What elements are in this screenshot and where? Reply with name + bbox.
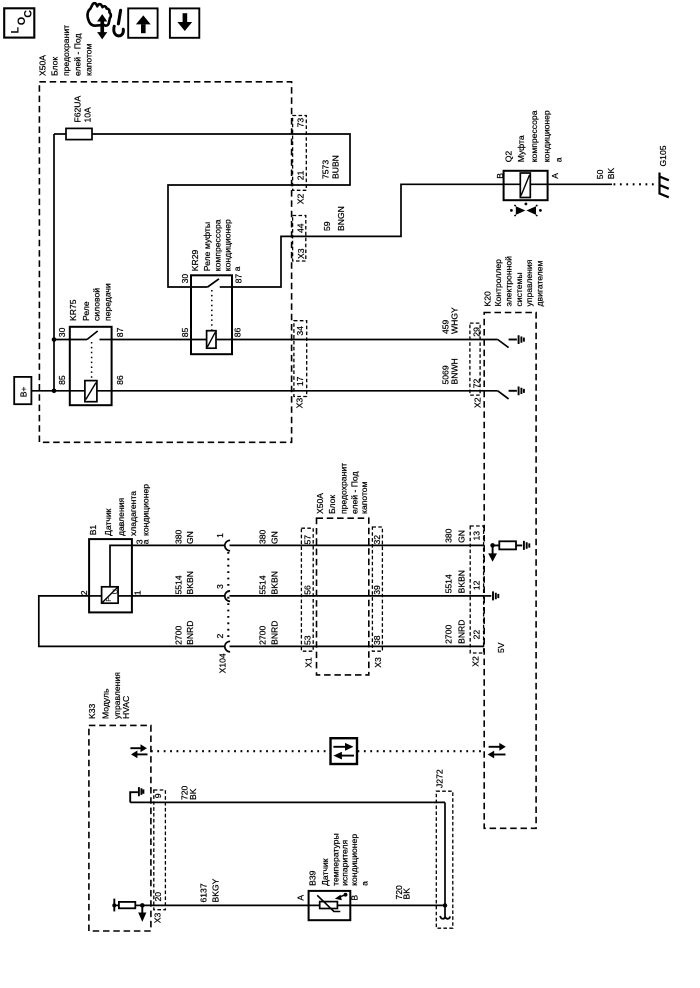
svg-text:BK: BK [606, 167, 616, 179]
svg-text:X2: X2 [295, 193, 305, 204]
svg-text:капотом: капотом [84, 43, 94, 76]
serial data arrows in K20 [488, 743, 506, 759]
svg-text:системы: системы [514, 272, 524, 306]
svg-text:5514: 5514 [258, 575, 268, 594]
svg-text:59: 59 [322, 221, 332, 231]
svg-text:12: 12 [472, 580, 482, 590]
LOC hint box [4, 8, 34, 37]
wire 459 WHGY: KR75:87 to KR29 coil to K20 [112, 339, 498, 341]
svg-text:G105: G105 [658, 145, 668, 166]
suppression diode under Q2 [510, 203, 542, 217]
svg-text:87: 87 [115, 327, 125, 337]
svg-text:Датчик: Датчик [103, 508, 113, 536]
svg-text:а: а [232, 266, 242, 271]
svg-text:кондиционер: кондиционер [541, 110, 551, 162]
svg-text:2700: 2700 [444, 625, 454, 644]
fuse block X50A (underhood) dashed outline [39, 82, 291, 443]
fuse F62UA 10A [66, 95, 92, 139]
svg-text:предохранит: предохранит [339, 463, 349, 514]
svg-text:GN: GN [270, 531, 280, 544]
A/C compressor clutch Q2 [495, 110, 564, 200]
svg-text:GN: GN [457, 530, 467, 543]
svg-text:85: 85 [180, 328, 190, 338]
svg-text:50: 50 [595, 169, 605, 179]
svg-text:K33: K33 [87, 703, 97, 719]
wire 5069 BNWH: KR75 coil to K20 [112, 390, 498, 392]
svg-text:L: L [10, 27, 22, 34]
wire 720 BK K33 pin 9 to J272 [130, 801, 445, 803]
wire 720 BK B39 to J272 [350, 904, 445, 906]
label X50A pass-through [315, 463, 369, 514]
wire 5514 BKBN B1 to X104 [132, 595, 225, 597]
junction at relay KR75 pin 85 feed [52, 389, 57, 394]
ECM K20 dashed outline [484, 313, 536, 829]
A/C refrigerant pressure sensor B1 [79, 484, 151, 613]
svg-text:давления: давления [116, 497, 126, 536]
svg-text:57: 57 [303, 535, 313, 545]
svg-text:1: 1 [215, 533, 225, 538]
svg-text:испарителя: испарителя [340, 839, 350, 885]
wire B+ to junction [31, 390, 54, 392]
wire labels (segment 3) [444, 528, 467, 644]
wire 720 BK label (B39 side) [394, 885, 412, 900]
svg-text:87: 87 [234, 274, 244, 284]
svg-text:силовой: силовой [92, 288, 102, 321]
svg-text:передачи: передачи [102, 283, 112, 321]
svg-text:управления: управления [524, 259, 534, 306]
svg-text:A: A [295, 895, 305, 901]
wires through X50A [301, 545, 484, 646]
svg-text:хладагента: хладагента [128, 491, 138, 536]
svg-text:WHGY: WHGY [450, 307, 460, 334]
relay KR29 A/C compressor clutch relay [180, 219, 244, 354]
wire labels (segment 2) [258, 529, 280, 644]
svg-text:Реле: Реле [81, 301, 91, 321]
K20 internal ground pin 12 [484, 591, 498, 600]
K20 low-side driver pin 29 [498, 335, 524, 347]
svg-text:X2: X2 [471, 656, 481, 667]
svg-text:86: 86 [115, 375, 125, 385]
svg-text:BNRD: BNRD [270, 621, 280, 645]
HVAC control module K33 dashed outline [89, 725, 151, 931]
svg-text:BNRD: BNRD [185, 621, 195, 645]
svg-text:2: 2 [79, 590, 89, 595]
svg-text:B+: B+ [19, 387, 29, 398]
svg-text:X3: X3 [296, 248, 306, 259]
svg-text:B1: B1 [88, 525, 98, 536]
svg-text:X2: X2 [472, 397, 482, 408]
svg-text:кондиционер: кондиционер [349, 834, 359, 886]
svg-text:Блок: Блок [327, 495, 337, 514]
wires X104 to X1 strip [230, 545, 302, 646]
svg-text:5514: 5514 [174, 575, 184, 594]
svg-text:X3: X3 [373, 657, 383, 668]
svg-text:GN: GN [185, 531, 195, 544]
wire 59 BNGN label [322, 206, 346, 231]
svg-text:BK: BK [401, 888, 411, 900]
up-arrow nav box [128, 8, 157, 37]
svg-text:U: U [110, 589, 119, 594]
svg-text:X50A: X50A [38, 55, 48, 76]
svg-text:кондиционер: кондиционер [223, 219, 233, 271]
svg-text:Q2: Q2 [504, 151, 514, 163]
svg-text:380: 380 [258, 529, 268, 544]
serial data arrows in K33 [130, 744, 147, 758]
svg-text:13: 13 [472, 531, 482, 541]
svg-text:6137: 6137 [199, 883, 209, 902]
svg-text:30: 30 [57, 327, 67, 337]
svg-text:72: 72 [472, 379, 482, 389]
svg-text:X1: X1 [304, 657, 314, 668]
wire to fuse [54, 133, 66, 135]
K33 internal pull-up with signal arrow pin 20 [112, 899, 146, 922]
label K33 HVAC module [87, 672, 131, 719]
svg-text:BKBN: BKBN [185, 571, 195, 594]
svg-text:380: 380 [174, 529, 184, 544]
A/C evaporator temperature sensor B39 [295, 833, 369, 920]
svg-text:а: а [141, 539, 151, 544]
wire 5069 BNWH label [440, 358, 459, 384]
connector X3 strip pins 34/17 [294, 321, 307, 409]
svg-text:Реле муфты: Реле муфты [202, 222, 212, 271]
svg-text:2700: 2700 [174, 626, 184, 645]
down-arrow nav box [170, 8, 199, 37]
K33 internal ground pin 9 [130, 787, 143, 802]
svg-text:BKBN: BKBN [270, 571, 280, 594]
wire fuse output through X2:73 loop [92, 134, 350, 287]
svg-text:X3: X3 [295, 398, 305, 409]
svg-text:BNGN: BNGN [336, 206, 346, 231]
svg-text:J272: J272 [435, 769, 445, 788]
wire 50 BK to ground [548, 183, 612, 185]
svg-text:Датчик: Датчик [320, 858, 330, 886]
svg-text:X3: X3 [152, 912, 162, 923]
svg-text:21: 21 [296, 170, 306, 180]
svg-text:7573: 7573 [320, 160, 330, 179]
K20 internal pull-up on pin 13 [488, 541, 529, 562]
fuse block X50A pass-through dashed outline [317, 518, 369, 675]
wire 380 GN B1 to X104 [132, 544, 225, 546]
svg-text:86: 86 [233, 328, 243, 338]
svg-text:BKBN: BKBN [457, 570, 467, 593]
svg-text:56: 56 [303, 585, 313, 595]
svg-text:38: 38 [372, 635, 382, 645]
svg-text:компрессора: компрессора [529, 110, 539, 162]
connector X3 strip pin 44 [293, 216, 306, 262]
connector X2 strip pins 73/21 [293, 116, 307, 205]
svg-text:Модуль: Модуль [100, 688, 110, 719]
svg-text:BUBN: BUBN [331, 155, 341, 179]
wire battery bus vertical [53, 134, 55, 391]
svg-text:22: 22 [472, 630, 482, 640]
connector X1 strip pins 57/56/53 [301, 528, 313, 668]
label X50A fuse block [38, 25, 94, 76]
svg-text:32: 32 [372, 535, 382, 545]
svg-text:BNRD: BNRD [457, 620, 467, 644]
svg-text:X50A: X50A [315, 493, 325, 514]
svg-text:B: B [495, 173, 505, 179]
wire 7573 BUBN label [320, 155, 340, 179]
serial data dotted line [151, 750, 330, 752]
connector X2 strip K20 pins 13/12/22 [470, 526, 483, 667]
svg-text:кондиционер: кондиционер [141, 484, 151, 536]
B+ battery feed terminal [14, 377, 31, 404]
svg-text:5V: 5V [496, 642, 506, 653]
svg-text:380: 380 [444, 528, 454, 543]
svg-text:20: 20 [153, 892, 163, 902]
svg-text:2: 2 [215, 634, 225, 639]
svg-text:F62UA: F62UA [73, 95, 83, 122]
svg-text:двигателем: двигателем [535, 260, 545, 306]
svg-text:34: 34 [295, 326, 305, 336]
svg-text:A: A [550, 173, 560, 179]
svg-text:P: P [104, 597, 113, 602]
wire B1 pin2 loop to 2700 BNRD [39, 596, 225, 647]
svg-text:10A: 10A [82, 107, 92, 123]
svg-text:53: 53 [303, 635, 313, 645]
svg-text:85: 85 [57, 375, 67, 385]
wire KR29:87 to X3:44 to Q2:B [232, 184, 504, 287]
relay KR75 powertrain relay [54, 283, 125, 405]
svg-text:5514: 5514 [444, 574, 454, 593]
label K20 engine control module [483, 256, 545, 307]
svg-text:капотом: капотом [359, 481, 369, 514]
svg-text:BNWH: BNWH [450, 358, 460, 384]
connector X3 strip K33 pins 9/20 [152, 790, 165, 923]
wire labels 380 GN / 5514 BKBN / 2700 BNRD (segment 1) [174, 529, 196, 644]
svg-text:BK: BK [188, 788, 198, 800]
svg-text:елей - Под: елей - Под [73, 33, 83, 76]
svg-text:предохранит: предохранит [61, 25, 71, 76]
svg-text:BKGY: BKGY [211, 878, 221, 902]
svg-text:17: 17 [295, 376, 305, 386]
svg-text:Блок: Блок [50, 57, 60, 76]
svg-text:73: 73 [296, 118, 306, 128]
ground G105 [658, 145, 669, 197]
wire 50 BK label [595, 167, 616, 179]
svg-text:KR29: KR29 [190, 249, 200, 271]
svg-text:B39: B39 [308, 870, 318, 886]
svg-text:электронной: электронной [503, 256, 513, 307]
svg-text:2700: 2700 [258, 626, 268, 645]
svg-text:Контроллер: Контроллер [493, 259, 503, 307]
svg-text:а: а [360, 881, 370, 886]
wire 459 WHGY label [440, 307, 459, 334]
svg-text:29: 29 [472, 327, 482, 337]
svg-text:B: B [349, 895, 359, 901]
svg-text:9: 9 [153, 793, 163, 798]
svg-text:K20: K20 [483, 291, 493, 307]
inline connector X104 [215, 533, 230, 674]
svg-text:KR75: KR75 [68, 299, 78, 321]
navigation icon: vehicle blob with double arrow and wrench [88, 3, 124, 39]
svg-text:44: 44 [295, 223, 305, 233]
wire 720 BK label [180, 785, 199, 800]
svg-text:X104: X104 [217, 653, 227, 673]
svg-text:30: 30 [180, 274, 190, 284]
svg-text:C: C [23, 10, 35, 18]
junction at relay KR75 pin 30 feed [52, 337, 57, 342]
svg-text:3: 3 [215, 584, 225, 589]
svg-text:HVAC: HVAC [121, 696, 131, 719]
svg-text:компрессора: компрессора [212, 219, 222, 271]
wire 6137 BKGY K33 pin 20 to B39 [142, 904, 308, 906]
svg-text:1: 1 [132, 590, 142, 595]
svg-text:Муфта: Муфта [516, 135, 526, 162]
splice J272 [435, 769, 453, 928]
connector X2 strip K20 pins 29/72 [470, 323, 483, 408]
serial data gateway box on dotted line [331, 738, 358, 764]
K20 low-side driver pin 72 [498, 387, 524, 399]
svg-text:а: а [554, 157, 564, 162]
connector X3 strip pins 32/39/38 [372, 527, 383, 668]
wire 6137 BKGY label [199, 878, 221, 902]
svg-text:39: 39 [372, 585, 382, 595]
